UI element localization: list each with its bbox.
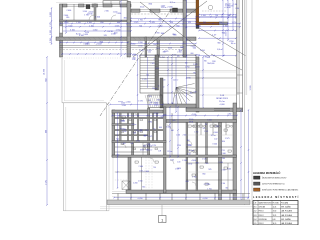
svg-text:2.02: 2.02: [254, 211, 257, 213]
svg-text:2 625: 2 625: [147, 50, 152, 52]
dark door blob: [173, 8, 178, 12]
wall x127 thick: [127, 2, 131, 58]
svg-text:600: 600: [117, 22, 120, 24]
svg-text:1 575: 1 575: [225, 138, 230, 140]
svg-text:1 050: 1 050: [83, 34, 87, 36]
corridor dim x170: [169, 107, 171, 157]
svg-text:850: 850: [142, 187, 145, 189]
svg-text:2 350: 2 350: [212, 61, 216, 63]
middle dim x203: [202, 57, 204, 108]
crossed box lower: [122, 181, 130, 190]
svg-text:750: 750: [205, 124, 208, 126]
svg-text:3 100: 3 100: [70, 30, 75, 32]
svg-text:LEGENDA MATERIÁLŮ: LEGENDA MATERIÁLŮ: [253, 172, 281, 175]
svg-text:1 575: 1 575: [202, 159, 206, 161]
roof diagonal a: [133, 1, 207, 57]
terrace level mark: [118, 101, 123, 103]
svg-text:1 750: 1 750: [136, 140, 140, 142]
svg-text:NOVÉ ZDIVO POROTHERM 11,5 AKU: NOVÉ ZDIVO POROTHERM 11,5 AKU NA MVC: [262, 189, 299, 192]
top wall segment 3: [92, 4, 98, 7]
lower dim x176: [175, 95, 177, 112]
svg-text:750: 750: [215, 15, 218, 17]
svg-text:2 000: 2 000: [50, 12, 52, 17]
dim row y30 right: [199, 30, 236, 32]
window lines top 2: [84, 4, 92, 6]
stair winder fan: [176, 84, 195, 88]
dormer divisions: [110, 1, 112, 4]
svg-text:8,4 m²: 8,4 m²: [217, 48, 223, 51]
svg-text:1 450: 1 450: [131, 44, 136, 46]
svg-text:+2,600: +2,600: [88, 11, 93, 13]
top wall segment 5: [120, 4, 131, 7]
left exterior wall: [60, 4, 63, 57]
dim vertical x121: [120, 1, 122, 56]
svg-text:850: 850: [202, 173, 205, 175]
svg-text:O 90: O 90: [148, 122, 152, 124]
svg-text:1 750: 1 750: [192, 176, 196, 178]
svg-text:3 100: 3 100: [87, 22, 92, 24]
svg-text:1 575: 1 575: [156, 48, 160, 50]
svg-text:900: 900: [143, 136, 146, 138]
window lines right 1: [140, 9, 150, 11]
svg-text:3 100: 3 100: [218, 162, 222, 164]
roof diagonal b: [140, 2, 210, 57]
svg-text:600: 600: [143, 146, 146, 148]
svg-text:+2,600: +2,600: [224, 7, 231, 9]
svg-text:1 200: 1 200: [133, 182, 138, 184]
right wall outer line: [236, 0, 238, 112]
dim vertical x233: [232, 0, 234, 30]
svg-text:2 000: 2 000: [181, 20, 186, 22]
svg-text:750: 750: [207, 184, 210, 186]
lower dim x117: [117, 113, 119, 188]
lower verticals: [120, 113, 122, 142]
balcony edge y47.5: [60, 47, 187, 49]
bathroom fixtures: [188, 125, 191, 127]
svg-text:2.05: 2.05: [254, 223, 257, 225]
svg-text:1 750: 1 750: [194, 132, 198, 134]
dashed line y49.3: [60, 48, 187, 50]
middle dim x186: [186, 57, 188, 108]
svg-text:3 100: 3 100: [83, 11, 87, 13]
svg-text:21,4 m²: 21,4 m²: [219, 100, 225, 103]
svg-text:O 90: O 90: [235, 8, 239, 10]
top wall segment 4: [103, 4, 112, 7]
svg-text:850: 850: [226, 187, 229, 189]
svg-text:2 000: 2 000: [139, 166, 144, 168]
svg-text:3 100: 3 100: [50, 30, 52, 35]
svg-text:3 100: 3 100: [188, 145, 192, 147]
svg-text:1.04: 1.04: [130, 143, 133, 145]
svg-text:300: 300: [190, 93, 193, 95]
door arcs lower: [135, 114, 139, 118]
svg-text:POKOJ: POKOJ: [259, 215, 264, 217]
svg-text:1 050: 1 050: [93, 30, 98, 32]
dim band y26.8: [60, 26, 240, 28]
svg-text:1 575: 1 575: [148, 136, 152, 138]
door arc on y20 a: [89, 15, 94, 20]
svg-text:2 000: 2 000: [183, 135, 187, 137]
svg-text:2 350: 2 350: [226, 32, 228, 37]
terrace posts: [117, 194, 119, 201]
shaft hatch box: [148, 95, 162, 108]
middle bottom wall: [186, 108, 243, 112]
svg-text:850: 850: [66, 17, 69, 19]
svg-text:1 450: 1 450: [160, 57, 165, 59]
left wall window: [60, 26, 63, 33]
svg-text:17,80: 17,80: [273, 211, 277, 213]
svg-text:2.03: 2.03: [254, 215, 257, 217]
svg-text:2 625: 2 625: [193, 64, 197, 66]
svg-text:3 100: 3 100: [122, 105, 126, 107]
svg-text:1 750: 1 750: [207, 189, 211, 191]
line y45.5: [60, 45, 197, 47]
svg-text:1 200: 1 200: [201, 15, 206, 17]
svg-text:1 750: 1 750: [138, 20, 143, 22]
dim vertical x223: [222, 0, 224, 56]
svg-text:+2,600: +2,600: [138, 130, 143, 132]
svg-text:+2,600: +2,600: [191, 160, 196, 162]
svg-text:850: 850: [176, 25, 179, 27]
svg-text:2 350: 2 350: [177, 51, 181, 53]
svg-text:1 050: 1 050: [138, 181, 143, 183]
dim band y18 mid: [131, 18, 196, 20]
column blob corner: [196, 25, 199, 29]
svg-text:12,5 m²: 12,5 m²: [170, 1, 176, 4]
window lines top 4: [112, 4, 120, 6]
svg-text:2.01: 2.01: [254, 207, 257, 209]
svg-text:850: 850: [100, 22, 103, 24]
dim row y38 right: [199, 37, 236, 39]
svg-text:3 100: 3 100: [182, 160, 187, 162]
right wall inner line: [242, 0, 244, 112]
top wall right segment 3: [170, 9, 183, 12]
fixture circles: [193, 125, 195, 127]
dormer rectangle: [103, 1, 128, 4]
shaft hatch lines: [145, 95, 149, 108]
terrace slab band: [107, 200, 250, 205]
svg-text:+2,600: +2,600: [143, 171, 149, 173]
stair lower wall x160: [160, 78, 163, 108]
svg-text:1 450: 1 450: [154, 104, 158, 106]
svg-text:1 200: 1 200: [122, 131, 126, 133]
svg-text:1 050: 1 050: [200, 50, 205, 52]
svg-text:525: 525: [104, 35, 107, 37]
bath row right walls: [200, 123, 202, 136]
svg-text:3 500: 3 500: [250, 86, 252, 91]
roof overhang line: [56, 1, 196, 3]
svg-text:600: 600: [163, 115, 166, 117]
interior wall y20: [60, 20, 132, 22]
lower dim band y104: [110, 104, 163, 106]
partition x74: [73, 4, 75, 20]
svg-text:750: 750: [207, 63, 210, 65]
svg-text:2 350: 2 350: [222, 170, 226, 172]
svg-text:2 000: 2 000: [227, 169, 231, 171]
stair dim chain a: [167, 57, 169, 104]
svg-text:+2,600: +2,600: [209, 63, 214, 65]
svg-text:525: 525: [194, 92, 197, 94]
dark column blob top wall: [86, 5, 90, 9]
svg-text:600: 600: [185, 63, 188, 65]
svg-text:2 000: 2 000: [68, 25, 73, 27]
plot right line b: [251, 0, 253, 205]
svg-text:2 625: 2 625: [170, 160, 174, 162]
svg-text:850: 850: [222, 141, 225, 143]
svg-text:2 000: 2 000: [121, 103, 125, 105]
top wall segment 1: [63, 4, 68, 7]
lower thick y120: [166, 120, 237, 123]
dimension line left upper: [51, 8, 53, 44]
lower left wall: [112, 110, 115, 157]
svg-text:1 575: 1 575: [215, 126, 219, 128]
svg-text:2 000: 2 000: [222, 153, 226, 155]
svg-text:600: 600: [133, 58, 136, 60]
svg-text:+0,250: +0,250: [202, 198, 207, 200]
svg-text:2 000: 2 000: [167, 6, 173, 8]
svg-text:6,40: 6,40: [273, 219, 276, 221]
svg-text:1 200: 1 200: [113, 12, 117, 14]
svg-text:DV 80: DV 80: [188, 163, 193, 165]
lower dim band y115: [112, 115, 237, 117]
svg-text:850: 850: [163, 51, 166, 53]
svg-text:2 625: 2 625: [85, 44, 90, 46]
svg-text:ŽELEZOBETON MONOLITICKÝ: ŽELEZOBETON MONOLITICKÝ: [262, 177, 287, 180]
lower right wall: [233, 103, 237, 200]
dim band y21 mid: [131, 20, 196, 22]
window lines right 2: [160, 9, 170, 11]
middle line y95: [199, 94, 237, 96]
svg-text:300: 300: [196, 162, 199, 164]
svg-text:2 000: 2 000: [139, 50, 143, 52]
dim band y16 right: [196, 16, 236, 18]
wall x196 middle: [196, 57, 199, 112]
svg-text:2 000: 2 000: [66, 10, 71, 12]
svg-text:14,20: 14,20: [273, 223, 277, 225]
hatching wall y37: [58, 37, 61, 40]
corridor dim x178: [177, 107, 179, 157]
stair treads right: [159, 57, 197, 59]
svg-text:2.04: 2.04: [254, 219, 257, 221]
dim band y31: [60, 30, 131, 32]
dim vertical x66: [65, 21, 67, 33]
svg-text:2 000: 2 000: [64, 15, 69, 17]
dim rows top-right: [199, 14, 236, 16]
wall x183 to brown: [183, 9, 196, 12]
dim vertical x186 upper: [186, 0, 188, 56]
svg-text:600: 600: [191, 53, 194, 55]
stair dim chain b: [171, 57, 173, 104]
svg-text:900: 900: [117, 154, 120, 156]
partition x157 upper: [157, 40, 160, 57]
svg-text:3 100: 3 100: [79, 35, 84, 37]
svg-text:1 575: 1 575: [134, 22, 139, 24]
svg-text:750: 750: [146, 75, 149, 77]
svg-text:2 350: 2 350: [205, 163, 209, 165]
svg-text:1.09: 1.09: [158, 150, 161, 152]
svg-text:2 350: 2 350: [117, 13, 122, 15]
top wall right segment 1: [131, 9, 140, 12]
terrace glazing: [112, 195, 250, 197]
svg-text:3 100: 3 100: [196, 25, 201, 27]
svg-text:750: 750: [193, 72, 196, 74]
terrace dim band: [114, 197, 248, 199]
lower bottom wall: [126, 190, 237, 193]
svg-text:1 575: 1 575: [45, 180, 47, 185]
svg-text:850: 850: [170, 22, 173, 24]
svg-text:600: 600: [156, 102, 159, 104]
svg-text:2 350: 2 350: [50, 38, 52, 43]
svg-text:12,5 m²: 12,5 m²: [161, 6, 167, 9]
brown wall horizontal: [196, 22, 219, 25]
svg-text:8,4 m²: 8,4 m²: [132, 123, 137, 126]
stair dim left: [137, 55, 139, 112]
middle light line y70: [199, 69, 237, 71]
svg-text:2 625: 2 625: [150, 22, 155, 24]
terrace corner: [107, 103, 110, 107]
svg-text:2 350: 2 350: [223, 25, 228, 27]
lower left light line: [112, 157, 114, 190]
tick row y54: [62, 53, 131, 55]
svg-text:2 350: 2 350: [104, 11, 108, 13]
section marker box: [159, 216, 167, 223]
dashed line y14 mid: [131, 13, 183, 15]
terrace lower lines: [100, 206, 255, 208]
svg-text:1.03: 1.03: [177, 161, 180, 163]
svg-text:3 100: 3 100: [95, 17, 101, 19]
svg-text:LEGENDA MÍSTNOSTÍ: LEGENDA MÍSTNOSTÍ: [253, 196, 300, 199]
svg-text:3 100: 3 100: [212, 143, 217, 145]
dimension line far left: [46, 57, 48, 205]
svg-text:850: 850: [187, 140, 190, 142]
svg-text:525: 525: [188, 22, 191, 24]
svg-text:+2,600: +2,600: [95, 44, 102, 46]
svg-text:750: 750: [219, 22, 222, 24]
svg-text:1.06: 1.06: [187, 153, 191, 155]
svg-text:1 575: 1 575: [50, 22, 52, 27]
svg-text:3 100: 3 100: [189, 119, 193, 121]
stair treads left: [140, 57, 155, 59]
svg-text:300: 300: [203, 22, 206, 24]
roof diagonal b2: [211, 54, 242, 70]
middle light line y88: [199, 87, 237, 89]
svg-text:600: 600: [45, 130, 47, 133]
stair centre wall: [155, 55, 159, 90]
stair walk line: [147, 57, 149, 88]
svg-text:1 750: 1 750: [185, 66, 189, 68]
svg-text:525: 525: [180, 47, 183, 49]
plot left double line: [63, 103, 65, 211]
wall x183: [183, 0, 186, 57]
svg-text:1 575: 1 575: [142, 79, 146, 81]
svg-text:750: 750: [139, 25, 142, 27]
svg-text:12,5 m²: 12,5 m²: [225, 2, 231, 5]
right wall grey fill: [237, 0, 239, 95]
svg-text:15,95: 15,95: [273, 215, 277, 217]
legend rooms table: [253, 201, 298, 226]
svg-text:525: 525: [172, 120, 175, 122]
svg-text:600: 600: [133, 132, 136, 134]
middle bottom windows: [214, 108, 230, 110]
svg-text:3 100: 3 100: [168, 48, 172, 50]
terrace left edge: [61, 58, 63, 103]
svg-text:600: 600: [186, 181, 189, 183]
cluster ticks mid: [131, 43, 196, 45]
door arc on y20 b: [111, 15, 116, 20]
partition x145: [145, 37, 147, 57]
svg-text:900: 900: [158, 20, 161, 22]
svg-text:1 575: 1 575: [138, 101, 142, 103]
swatch 1: [254, 176, 261, 179]
svg-text:300: 300: [173, 35, 176, 37]
svg-text:750: 750: [153, 44, 156, 46]
svg-text:1 750: 1 750: [84, 15, 89, 17]
sight line diagonal: [100, 8, 172, 116]
plot right line a: [244, 0, 246, 205]
svg-text:12,5 m²: 12,5 m²: [152, 87, 158, 90]
middle line y78: [186, 77, 237, 79]
svg-text:1 450: 1 450: [122, 143, 126, 145]
lower horizontals: [115, 117, 163, 118]
terrace bottom edge: [62, 102, 107, 104]
svg-text:1 450: 1 450: [155, 68, 159, 70]
svg-text:O 90: O 90: [138, 46, 142, 48]
swatch 2: [254, 182, 261, 185]
svg-text:3 100: 3 100: [140, 7, 144, 9]
svg-text:12,45: 12,45: [273, 207, 277, 209]
lower left wall lower part: [128, 157, 131, 193]
svg-text:2 000: 2 000: [160, 116, 164, 118]
roof diagonal c: [196, 26, 246, 56]
right dim line: [248, 110, 250, 198]
brown wall vertical: [196, 0, 199, 25]
svg-text:1 200: 1 200: [76, 22, 81, 24]
svg-text:DV 80: DV 80: [189, 122, 193, 124]
terrace top dotted: [62, 57, 131, 59]
right wall window: [237, 74, 243, 76]
svg-text:2 625: 2 625: [151, 63, 155, 65]
svg-text:8,4 m²: 8,4 m²: [189, 149, 194, 152]
svg-text:12 450: 12 450: [44, 68, 46, 75]
svg-text:3 100: 3 100: [221, 183, 225, 185]
dim vertical x228: [227, 0, 229, 40]
svg-text:POKOJ: POKOJ: [259, 211, 264, 213]
terrace top line: [112, 193, 250, 195]
dim band y23.5: [60, 23, 240, 25]
top wall right segment 2: [150, 9, 160, 12]
svg-text:8,4 m²: 8,4 m²: [132, 53, 137, 56]
top-right room dashes: [202, 10, 226, 12]
svg-text:+2,600: +2,600: [213, 132, 218, 134]
thick wall y37: [56, 37, 196, 40]
svg-text:1 750: 1 750: [177, 145, 181, 147]
section marker stem: [161, 205, 163, 216]
svg-text:ZDIVO POROTHERM 30 P+D: ZDIVO POROTHERM 30 P+D: [262, 184, 286, 186]
svg-text:1 450: 1 450: [139, 171, 143, 173]
window lines top 3: [98, 4, 104, 6]
svg-text:600: 600: [159, 127, 162, 129]
window lines top 1: [67, 4, 79, 6]
svg-text:+2,600: +2,600: [125, 102, 130, 104]
right wall mid line: [239, 0, 241, 112]
svg-text:850: 850: [45, 78, 47, 81]
svg-text:+0,250: +0,250: [137, 198, 142, 200]
svg-text:1 575: 1 575: [115, 25, 120, 27]
svg-text:1 575: 1 575: [204, 131, 208, 133]
tick row y42.5: [60, 42, 128, 44]
svg-text:1 050: 1 050: [207, 120, 211, 122]
right grey infill: [246, 0, 248, 95]
